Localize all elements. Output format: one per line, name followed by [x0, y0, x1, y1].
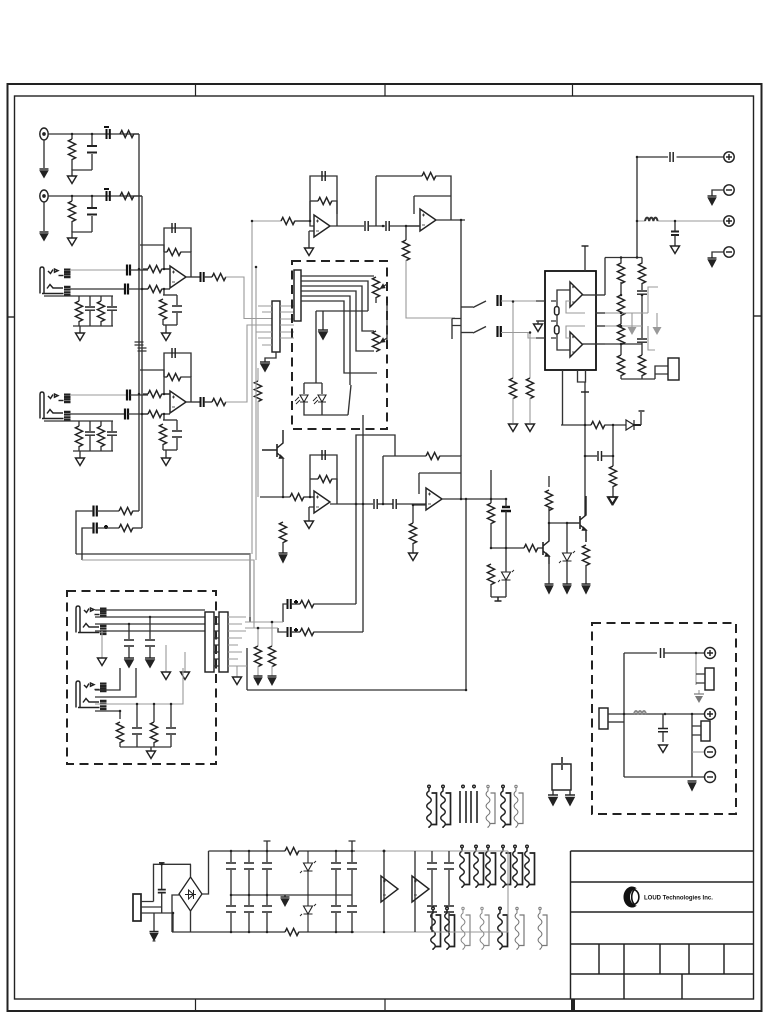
- noninv stem U2A: [309, 231, 314, 248]
- wire C13 to bus: [128, 413, 148, 415]
- RCA jack J1: [40, 128, 48, 140]
- RCA jack J2: [40, 190, 48, 202]
- ribbon wire 1d: [471, 785, 477, 823]
- junction dot chain A: [271, 621, 274, 624]
- mute base bus: [491, 547, 524, 549]
- out connector feed: [655, 366, 668, 379]
- RCA jack J12: [705, 709, 716, 720]
- bridge left vertex drop: [172, 895, 179, 932]
- gain network bottom bar ch4: [163, 449, 177, 451]
- ground chassis R: [565, 795, 575, 805]
- inlet cap C41: [158, 864, 166, 913]
- shunt resistor R43: [254, 628, 261, 676]
- capacitor C37: [132, 704, 142, 747]
- feedback resistor R24: [422, 172, 451, 220]
- mid wire lower: [377, 503, 393, 505]
- ribbon wire 2c: [486, 845, 496, 888]
- ribbon wire 3g: [538, 907, 547, 950]
- gray jack loop B: [648, 326, 655, 350]
- ribbon wire 2f: [525, 845, 535, 888]
- connector bar P2: [294, 270, 301, 321]
- chain B gray link: [245, 627, 278, 629]
- RCA jack J11: [705, 648, 716, 659]
- title block column dividers row 5: [624, 974, 682, 999]
- capacitor C28: [585, 451, 613, 461]
- right cap col C48a: [444, 851, 454, 895]
- J9 wire 1: [95, 609, 205, 611]
- node to gain network: [163, 289, 165, 295]
- chassis ground L stem: [552, 790, 554, 795]
- feed bus gray vertical 1: [251, 221, 253, 554]
- P2 wire pin5: [301, 296, 350, 385]
- filter cap C42b: [226, 895, 236, 932]
- stem ground U1B: [165, 450, 167, 458]
- P1 right pin wires: [280, 306, 294, 338]
- gray rail extension top: [507, 851, 509, 932]
- pulldown resistor R28: [526, 333, 533, 424]
- zener column stem: [566, 523, 568, 553]
- node bus L corner: [134, 133, 140, 135]
- filter cap C45a with top stub: [331, 851, 341, 895]
- output resistor R11: [204, 273, 226, 280]
- output wire U4B: [442, 498, 506, 500]
- ground jack ch4: [76, 458, 85, 466]
- zener D6: [300, 851, 316, 895]
- out B link: [605, 343, 642, 345]
- input resistor R7: [143, 265, 170, 272]
- title block row line 5: [571, 973, 754, 975]
- feed bus gray vertical 2: [255, 267, 257, 560]
- ground J6 (filled): [708, 196, 717, 205]
- title block row line 2: [571, 881, 754, 883]
- ground EQ (filled): [318, 330, 328, 339]
- wire chain1 left: [76, 511, 94, 554]
- pot VR1: [372, 277, 387, 303]
- resistor R17: [159, 424, 166, 450]
- ground R27: [509, 424, 518, 432]
- ferrite bead FB2 on tape wire: [645, 218, 658, 221]
- chain riser B: [362, 429, 364, 632]
- dashed box EQ module: [292, 261, 387, 429]
- feedback tap wire: [140, 245, 164, 252]
- RCA output jack J8: [724, 247, 734, 257]
- P7 leads: [692, 726, 701, 735]
- inlet cap C42 tick: [159, 862, 165, 864]
- J10 wire 2: [95, 668, 136, 697]
- title block row line 4: [571, 943, 754, 945]
- ground bar mute: [495, 597, 502, 601]
- bundle down from chains: [250, 554, 254, 624]
- noninv stem U4A: [309, 507, 314, 521]
- noninv resistor R25: [402, 226, 455, 318]
- output run to bundle: [226, 277, 273, 319]
- open arrow ground below P4: [162, 645, 171, 680]
- output wire U2A: [330, 225, 364, 227]
- capacitor C15: [107, 421, 117, 451]
- feedback resistor R9: [164, 248, 191, 277]
- riser to connector stub: [640, 412, 642, 425]
- wire SW2b to IC: [501, 333, 536, 339]
- P2 wire pin6: [301, 301, 377, 373]
- J9 wire 2: [95, 616, 205, 618]
- output capacitor C11: [201, 272, 204, 282]
- input resistor R22: [281, 217, 310, 224]
- switch feed corner 2: [461, 332, 473, 334]
- chassis box: [552, 764, 571, 790]
- ribbon wire 3e: [498, 907, 508, 950]
- chain A resistor R41: [291, 600, 356, 607]
- V+ top bus: [209, 850, 356, 852]
- gain network top bar ch4: [163, 419, 177, 421]
- long bottom wire: [247, 689, 466, 691]
- right cap col C48b: [444, 895, 454, 932]
- 1/4 inch jack J4: [40, 392, 71, 420]
- wire to U4B: [397, 503, 427, 505]
- column1 resistor Rd: [617, 344, 624, 379]
- feedback capacitor C9: [164, 223, 191, 252]
- output run to bundle ch4: [226, 325, 273, 402]
- IC left inner ticks: [551, 301, 556, 338]
- ground Q3 (filled): [279, 553, 288, 562]
- input resistor R36: [290, 493, 314, 500]
- ground zener: [563, 584, 572, 593]
- wire C1 bottom to R1 bottom: [72, 170, 92, 176]
- jack ch4 tip wire: [70, 394, 126, 396]
- out A riser: [604, 258, 606, 296]
- connector P3: [668, 358, 679, 380]
- ground under J1: [40, 169, 49, 177]
- ground chassis L: [548, 795, 558, 805]
- resistor R46: [150, 704, 157, 747]
- jack ch3 network bottom bus: [73, 325, 113, 327]
- J9 wire 3: [95, 623, 205, 625]
- bridge right out riser: [202, 851, 209, 894]
- Q2 base link: [567, 522, 580, 524]
- switch feed corner 1: [461, 306, 473, 308]
- IC bottom pin U loop: [578, 370, 586, 382]
- wire C39 to RCA: [664, 652, 705, 654]
- top border zone tick 3: [572, 84, 574, 96]
- bottom wire: [624, 776, 704, 778]
- feedback resistor R37: [310, 475, 337, 504]
- ribbon wire 2d: [501, 845, 511, 888]
- bottom border zone tick 1: [195, 999, 197, 1011]
- chain A left wire: [283, 604, 288, 622]
- internal resistor r1: [555, 307, 560, 316]
- top border zone tick 2: [384, 84, 386, 96]
- bridge bottom stub: [190, 911, 192, 932]
- bridge rectifier BR1: [179, 877, 202, 911]
- P7 link rail: [691, 714, 693, 777]
- internal resistor r2: [555, 326, 560, 335]
- capacitor C2 (series, polarized): [104, 127, 110, 139]
- switch contact SW2b: [473, 327, 486, 334]
- ground R40: [409, 553, 418, 561]
- 1/4 inch jack J9: [76, 606, 107, 634]
- V+ top bus gray extension: [355, 850, 508, 852]
- LED D2: [313, 395, 326, 404]
- ground Q1 emitter: [545, 584, 554, 593]
- output wire U1A: [186, 276, 200, 278]
- feedback loop top wire U2B: [376, 175, 422, 177]
- bus wire R vertical: [141, 196, 143, 528]
- ground U2A: [305, 248, 314, 256]
- RCA output jack J6: [724, 185, 734, 195]
- pot right rail: [386, 303, 388, 341]
- ground J10 network: [147, 751, 156, 759]
- power bar: [582, 245, 589, 247]
- inner loop U2B: [414, 196, 451, 214]
- feedback capacitor C16: [164, 348, 191, 377]
- ground under R1/C1: [68, 176, 77, 184]
- ribbon wire 2e: [513, 845, 523, 888]
- ribbon wire 3b: [445, 907, 455, 950]
- tape out vertical feed: [636, 157, 638, 221]
- ground arrow left of IC: [534, 321, 546, 332]
- inlet riser to top: [154, 864, 192, 901]
- ribbon wire 3f: [515, 907, 524, 950]
- ground R28: [526, 424, 535, 432]
- title block row line 3: [571, 911, 754, 913]
- main mix bus lower: [82, 560, 254, 628]
- capacitor C13 (polarized): [125, 409, 128, 420]
- wire cap to RCA1: [677, 156, 724, 158]
- op-amp U3A: [570, 282, 583, 307]
- bus resistor R47: [285, 847, 299, 854]
- feedback tap wire ch4: [140, 370, 164, 377]
- open arrow ground below P4 b: [181, 652, 190, 680]
- ground U4A: [305, 521, 314, 529]
- ribbon wire 3c: [461, 907, 470, 950]
- zener stem bottom: [566, 561, 568, 584]
- capacitor C4 (series, polarized): [104, 189, 110, 201]
- LOUD logo mark: [624, 887, 639, 908]
- capacitor C35: [124, 624, 134, 658]
- tape feed drop: [636, 221, 638, 258]
- coupling resistor R19: [97, 507, 139, 514]
- Q1 collector bus: [549, 522, 580, 524]
- P2 wire pin3: [301, 286, 374, 331]
- title block column dividers row 4: [599, 944, 724, 974]
- transistor Q2: [580, 496, 586, 542]
- P1 left pin wires: [256, 306, 272, 345]
- J6 ground wire: [712, 190, 724, 196]
- coupling capacitor C22: [365, 221, 368, 231]
- jack ch3 shield network top bus: [44, 295, 113, 297]
- pulldown resistor R27: [509, 302, 516, 424]
- wire IC pin to R29: [561, 424, 591, 426]
- filter cap C46b: [347, 895, 357, 932]
- column top rail: [605, 257, 642, 259]
- switch contact SW2a: [473, 301, 486, 308]
- wire J2 to ground: [43, 202, 45, 231]
- coupling capacitor C31: [374, 499, 377, 509]
- ribbon wire 1e: [486, 785, 495, 828]
- feedback loop top wire U4B: [383, 455, 426, 457]
- bottom border zone tick 2: [384, 999, 386, 1011]
- bus wire L vertical: [138, 134, 140, 511]
- capacitor C7: [85, 296, 95, 326]
- feedback capacitor C21: [310, 171, 337, 221]
- series capacitor C27: [498, 326, 501, 337]
- connector bar P4a: [205, 612, 214, 672]
- resistor R12: [75, 421, 82, 451]
- switch SW1: [348, 385, 351, 415]
- chassis ground R stem: [569, 790, 571, 795]
- RCA jack J13: [705, 747, 716, 758]
- resistor R6: [97, 296, 104, 326]
- feedback resistor R39: [426, 452, 461, 499]
- drop from node: [612, 425, 614, 456]
- zener D5: [498, 570, 514, 582]
- inlet drop to bottom bus: [172, 913, 174, 932]
- chassis plus mark: [556, 757, 568, 770]
- feedback left drop U4B: [382, 456, 384, 504]
- op-amp U2A: [314, 215, 330, 237]
- stem to ground ch4: [79, 451, 81, 458]
- capacitor C38: [166, 704, 176, 747]
- zener D4: [559, 551, 575, 563]
- ribbon wire 1b: [441, 785, 451, 828]
- LED drop wire: [315, 311, 317, 383]
- wire R29 to D3: [605, 424, 626, 426]
- input wire U4A: [260, 496, 290, 498]
- LED return drop: [362, 415, 364, 429]
- 1/4 inch jack J10: [76, 681, 107, 709]
- right cap col C47b: [427, 895, 437, 932]
- LED feed bar: [316, 310, 368, 312]
- ground R44 (filled): [268, 676, 277, 685]
- resistor R13: [97, 421, 104, 451]
- junction dot chain B: [257, 627, 260, 630]
- mid bus ground (filled): [281, 895, 290, 906]
- output wire U1B: [186, 401, 200, 403]
- op-amp U4B: [426, 488, 442, 510]
- capacitor C8: [107, 296, 117, 326]
- feedback resistor R23: [310, 197, 337, 226]
- power arrow top right: [608, 497, 617, 505]
- op-amp U3B: [570, 332, 583, 357]
- series capacitor C26: [498, 295, 501, 306]
- bottom V- bus: [172, 931, 354, 933]
- chain A gray link: [245, 621, 283, 623]
- column stems from rail: [621, 258, 642, 264]
- buffer op-amp U5A: [381, 876, 398, 902]
- IC bottom pin left: [562, 370, 564, 425]
- tape out lower wire: [637, 220, 724, 222]
- coupling capacitor C24: [670, 152, 673, 162]
- columns bottom link: [621, 378, 655, 380]
- ground P5 (filled gray): [694, 694, 704, 703]
- feedback capacitor C30: [310, 450, 337, 497]
- filter cap C42a: [226, 851, 236, 895]
- chain B capacitor C34 (polarized): [288, 627, 299, 637]
- connector P7: [701, 721, 710, 741]
- LED D1: [295, 395, 308, 404]
- connector bar P4b: [219, 612, 228, 672]
- D5 stem: [505, 548, 507, 597]
- internal fb loop A: [566, 301, 585, 313]
- capacitor C1: [87, 134, 97, 170]
- wire J2 output: [48, 195, 142, 197]
- open arrow ground right of P4: [233, 666, 242, 685]
- output wire U4A: [330, 503, 373, 505]
- J10 wire 3: [95, 668, 183, 704]
- gray ground arrow col right: [653, 313, 662, 335]
- P2 wire pin4: [301, 291, 374, 351]
- junction dot V+: [383, 850, 386, 853]
- capacitor C10: [172, 295, 182, 325]
- ground stem in box: [322, 311, 324, 330]
- ground C40: [659, 745, 668, 753]
- ribbon wire 2b: [474, 845, 484, 888]
- diode D3: [626, 420, 641, 430]
- J10 network bottom bus: [120, 746, 171, 748]
- mute left column upper resistor R31: [487, 470, 494, 548]
- ground U1B gain: [162, 458, 171, 466]
- resistor R21 below P1: [254, 368, 261, 497]
- output wire U2B: [436, 219, 465, 221]
- capacitor C12 (polarized): [127, 390, 130, 401]
- IC right pin fb B: [595, 325, 605, 327]
- capacitor C17: [172, 420, 182, 450]
- RCA output jack J7: [724, 216, 734, 226]
- column2 capacitor Cg: [637, 339, 647, 355]
- stem to ground ch3: [79, 326, 81, 333]
- transistor Q3: [262, 430, 283, 458]
- buffer op-amp U5B: [412, 876, 429, 902]
- op-amp U2B: [420, 209, 436, 231]
- filter cap C45b: [331, 895, 341, 932]
- filter cap C46a: [347, 841, 357, 895]
- gray ground arrow col mid: [628, 313, 637, 335]
- inner loop U4B: [419, 473, 461, 494]
- J9 wire 4: [95, 630, 205, 632]
- input resistor R14: [143, 390, 170, 397]
- LED bottom bar: [304, 402, 348, 415]
- dashed box IO module: [67, 591, 216, 764]
- coupling capacitor C19 (polarized): [94, 506, 97, 517]
- gray jack loop A: [648, 287, 658, 313]
- capacitor C36: [145, 617, 155, 658]
- column1 resistor Rb: [617, 282, 624, 316]
- ribbon wire 1g: [514, 785, 523, 828]
- filter cap C44b: [262, 895, 272, 932]
- P2 wire pin1: [301, 275, 374, 277]
- wire feedback node down: [163, 252, 165, 269]
- feedback resistor R16: [164, 373, 191, 402]
- link wires columns: [621, 313, 648, 326]
- IC body U3: [545, 271, 596, 370]
- ribbon wire 1a: [427, 785, 437, 828]
- jack ch4 ring wire: [70, 413, 124, 415]
- shunt capacitor C40: [658, 714, 668, 742]
- J9 sleeve drop: [101, 631, 103, 658]
- column1 resistor Ra: [617, 263, 624, 284]
- P2 wire pin2: [301, 281, 368, 311]
- mid 0V bus: [231, 894, 352, 896]
- wire C5 to bus: [130, 269, 148, 271]
- bridge top stub: [190, 864, 192, 877]
- ground C25 open arrow: [671, 246, 680, 254]
- right border zone tick: [754, 315, 762, 317]
- jack ch4 shield network top bus: [44, 420, 113, 422]
- ribbon wire 2a: [460, 845, 470, 888]
- left rail: [623, 653, 625, 777]
- Q3 emitter rail: [282, 458, 284, 497]
- coupling capacitor C20 (polarized): [94, 523, 109, 534]
- J10 network drop: [119, 711, 121, 719]
